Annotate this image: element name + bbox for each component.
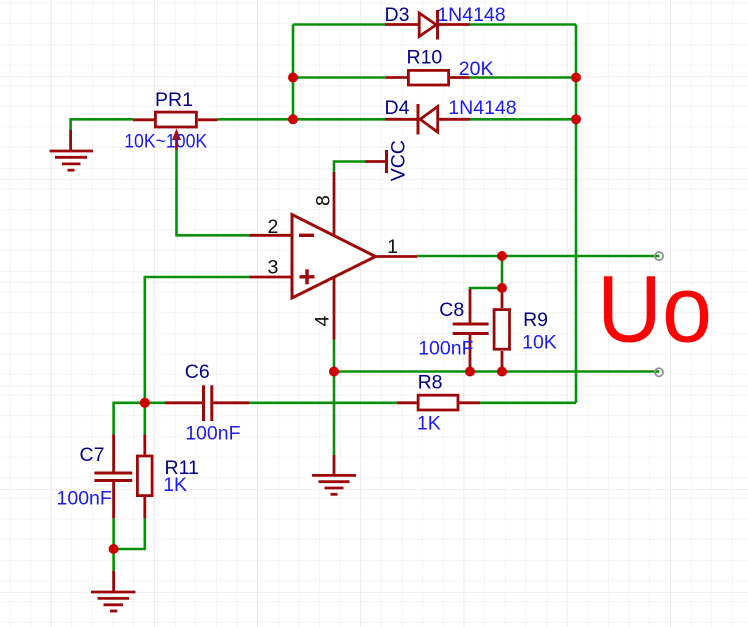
wire: corner to C8 top — [470, 288, 502, 290]
svg-text:3: 3 — [268, 257, 279, 279]
wire: right rail from D3 row down to R8 row — [575, 25, 578, 403]
wire: pin1 output to terminal — [417, 255, 659, 258]
ground (bottom left) — [91, 571, 136, 611]
resistor R8 — [397, 395, 480, 410]
resistor R11 — [137, 435, 152, 519]
junction dot at right rail / R10 — [571, 73, 581, 83]
wire: junction down to R11 — [144, 403, 147, 435]
VCC power symbol — [365, 150, 387, 173]
svg-text:C8: C8 — [439, 299, 464, 321]
wire: D3 row right segment — [470, 23, 576, 26]
wire: PR1 right to D4 left — [218, 118, 386, 121]
svg-text:R10: R10 — [407, 46, 443, 68]
pin 8 stub — [333, 172, 336, 237]
junction dot at C6/pin3 — [140, 398, 150, 408]
svg-text:Uo: Uo — [597, 257, 712, 363]
wire: PR1 left to ground corner — [71, 119, 133, 130]
svg-text:8: 8 — [313, 195, 335, 206]
pin 3 stub — [250, 276, 293, 279]
svg-text:R8: R8 — [418, 371, 443, 393]
junction dot at output / R9 branch — [497, 251, 507, 261]
svg-text:D4: D4 — [385, 97, 410, 119]
capacitor C7 — [94, 435, 132, 519]
plus symbol — [300, 275, 315, 278]
svg-text:1N4148: 1N4148 — [437, 4, 505, 26]
wire: C6 right to R8 left — [249, 401, 397, 404]
output terminal 2 — [655, 368, 663, 376]
triangle body — [292, 215, 376, 299]
wire: R11 bottom to bottom junction — [114, 518, 145, 549]
wire: R10 right segment — [469, 76, 576, 79]
diode D4 — [385, 104, 470, 135]
wire: D3 row left segment — [293, 23, 385, 26]
wire: bottom horizontal from pin4 to output terminal 2 — [334, 370, 659, 373]
junction dot at right rail / D4 — [571, 114, 581, 124]
pin 2 stub — [250, 234, 293, 237]
wire: PR1 wiper down and to op-amp pin 2 — [177, 149, 250, 235]
svg-text:D3: D3 — [385, 4, 410, 26]
wire: pin4 down through junction to ground — [333, 339, 336, 455]
wire: junction to C6 left — [145, 401, 165, 404]
svg-text:100nF: 100nF — [418, 338, 473, 360]
pin 1 stub — [376, 255, 418, 258]
wire: bottom junction to ground — [112, 549, 115, 571]
svg-text:1K: 1K — [163, 474, 187, 496]
svg-text:C7: C7 — [80, 444, 105, 466]
capacitor C8 — [453, 289, 489, 369]
svg-text:100nF: 100nF — [57, 488, 112, 510]
junction dot at C8 bottom — [465, 367, 475, 377]
svg-text:1: 1 — [387, 236, 398, 258]
svg-text:20K: 20K — [459, 58, 494, 80]
wire: left rail from D3 row down to PR1/D4 row — [292, 25, 295, 120]
svg-text:2: 2 — [268, 216, 279, 238]
junction dot at C7/R11 bottom — [109, 544, 119, 554]
wire: junction left to C7 branch — [114, 403, 145, 435]
svg-text:VCC: VCC — [388, 140, 410, 181]
svg-text:100nF: 100nF — [185, 423, 240, 445]
svg-text:C6: C6 — [185, 361, 210, 383]
wire: D4 right segment — [470, 118, 576, 121]
svg-text:PR1: PR1 — [155, 89, 193, 111]
junction dot at C8/R9 top — [497, 283, 507, 293]
junction dot at R9 bottom — [497, 367, 507, 377]
ground (middle, pin4) — [312, 455, 356, 494]
capacitor C6 — [165, 385, 249, 421]
svg-text:4: 4 — [312, 316, 334, 327]
junction dot at pin4 / bottom wire — [329, 367, 339, 377]
minus symbol — [299, 234, 314, 237]
svg-text:10K~100K: 10K~100K — [124, 130, 207, 152]
svg-text:R9: R9 — [523, 309, 548, 331]
wire: C7 bottom to bottom junction — [112, 518, 115, 549]
pin 4 stub — [333, 278, 336, 340]
output terminal 1 — [655, 252, 663, 260]
potentiometer PR1 — [133, 112, 218, 149]
svg-text:1K: 1K — [417, 412, 441, 434]
diode D3 — [385, 10, 470, 40]
wire: R10 left segment — [293, 76, 386, 79]
svg-text:10K: 10K — [522, 332, 557, 354]
wire: pin8 corner to VCC — [334, 162, 365, 173]
svg-text:1N4148: 1N4148 — [448, 97, 516, 119]
op-amp U1 — [250, 172, 418, 340]
wire: R8 right to right rail — [480, 401, 576, 404]
junction dot at left rail / R10 — [288, 73, 298, 83]
ground (left, PR1) — [50, 130, 93, 170]
resistor R10 — [386, 70, 469, 85]
wire: output down to C8/R9 top — [501, 256, 504, 293]
resistor R9 — [494, 293, 509, 368]
wire: op-amp pin 3 left and down to C6 junction — [145, 277, 250, 403]
junction dot at left rail / PR1-D4 — [288, 114, 298, 124]
